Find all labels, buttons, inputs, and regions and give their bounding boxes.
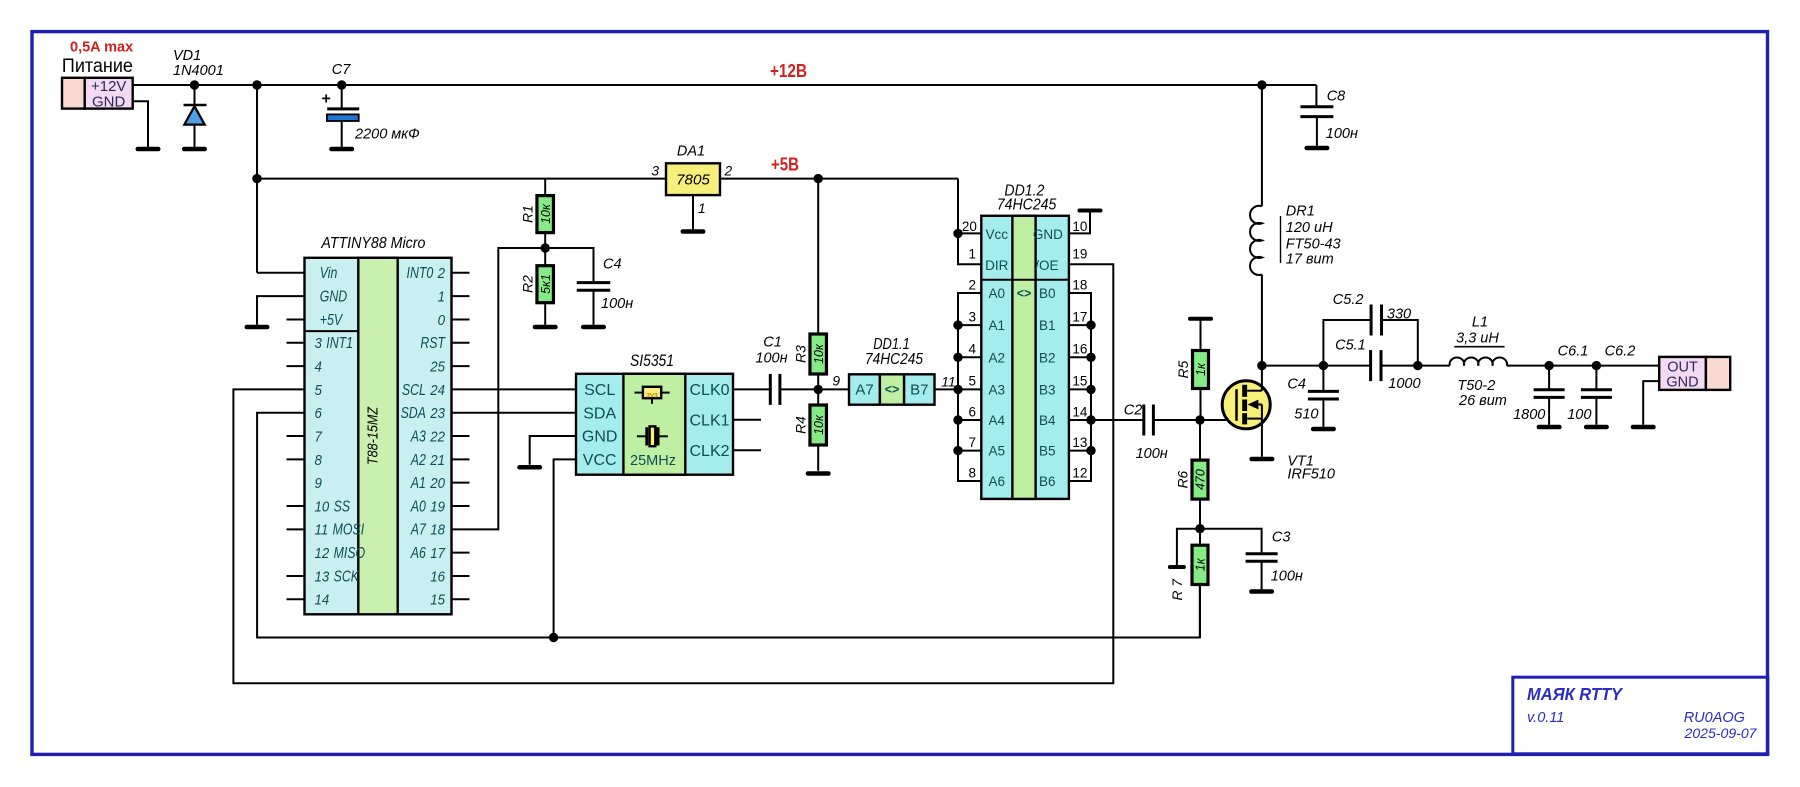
svg-text:2: 2	[968, 277, 976, 292]
svg-text:24: 24	[429, 383, 445, 399]
svg-text:100н: 100н	[1136, 446, 1168, 462]
svg-text:RST: RST	[420, 335, 446, 352]
svg-text:3V3: 3V3	[646, 392, 658, 399]
svg-text:SCK: SCK	[334, 568, 360, 585]
svg-text:13: 13	[315, 569, 330, 585]
svg-text:100н: 100н	[1271, 569, 1303, 585]
svg-text:510: 510	[1294, 407, 1318, 423]
svg-text:B7: B7	[910, 382, 928, 399]
svg-text:Vin: Vin	[320, 265, 338, 282]
svg-text:+5V: +5V	[320, 312, 344, 329]
svg-text:21: 21	[429, 453, 445, 469]
svg-text:INT1: INT1	[326, 335, 353, 352]
svg-text:GND: GND	[1033, 227, 1063, 242]
svg-text:330: 330	[1387, 307, 1411, 323]
svg-text:17 вит: 17 вит	[1286, 252, 1334, 268]
svg-text:C5.2: C5.2	[1333, 292, 1364, 308]
svg-text:МАЯК RTTY: МАЯК RTTY	[1527, 684, 1623, 704]
svg-text:11: 11	[941, 374, 955, 389]
svg-text:18: 18	[430, 523, 445, 539]
svg-text:18: 18	[1072, 277, 1087, 292]
svg-text:+12В: +12В	[770, 61, 807, 81]
svg-text:C1: C1	[763, 335, 782, 351]
svg-text:5: 5	[968, 374, 976, 389]
svg-text:R1: R1	[521, 205, 536, 223]
svg-text:SS: SS	[334, 498, 351, 515]
svg-text:74HC245: 74HC245	[997, 196, 1057, 213]
svg-text:A6: A6	[989, 474, 1006, 489]
svg-text:+5В: +5В	[771, 155, 799, 175]
svg-text:74HC245: 74HC245	[865, 351, 923, 368]
svg-text:CLK2: CLK2	[689, 443, 729, 460]
svg-text:15: 15	[430, 593, 446, 609]
svg-text:26 вит: 26 вит	[1458, 393, 1507, 409]
svg-text:19: 19	[430, 499, 445, 515]
svg-text:GND: GND	[320, 289, 347, 306]
svg-text:A7: A7	[410, 522, 427, 539]
svg-text:1к: 1к	[1193, 557, 1207, 571]
svg-text:10к: 10к	[812, 343, 826, 364]
svg-text:R3: R3	[794, 345, 809, 363]
svg-text:7805: 7805	[676, 172, 710, 189]
svg-text:B4: B4	[1039, 413, 1056, 428]
svg-text:GND: GND	[1666, 375, 1698, 391]
svg-text:10к: 10к	[812, 414, 826, 435]
svg-text:20: 20	[429, 476, 445, 492]
svg-text:23: 23	[429, 406, 445, 422]
svg-text:6: 6	[315, 406, 322, 422]
svg-text:0: 0	[438, 313, 445, 329]
svg-text:10: 10	[315, 499, 330, 515]
svg-text:100н: 100н	[601, 296, 633, 312]
svg-text:25: 25	[429, 359, 446, 375]
svg-text:14: 14	[1072, 404, 1088, 419]
svg-text:2200 мкФ: 2200 мкФ	[354, 127, 420, 143]
svg-text:RU0AOG: RU0AOG	[1684, 710, 1745, 726]
svg-text:11: 11	[315, 523, 329, 539]
svg-text:B5: B5	[1039, 444, 1056, 459]
svg-text:17: 17	[430, 546, 446, 562]
svg-text:R4: R4	[794, 416, 809, 434]
svg-text:16: 16	[430, 569, 445, 585]
svg-text:16: 16	[1072, 342, 1087, 357]
svg-text:+12V: +12V	[91, 78, 126, 95]
svg-text:8: 8	[315, 453, 322, 469]
svg-text:Vcc: Vcc	[986, 227, 1009, 242]
svg-text:OUT: OUT	[1667, 360, 1698, 376]
svg-text:DA1: DA1	[677, 144, 705, 160]
svg-text:B0: B0	[1039, 286, 1056, 301]
svg-text:R2: R2	[521, 275, 536, 293]
svg-text:VCC: VCC	[583, 452, 617, 469]
svg-text:1: 1	[968, 247, 976, 262]
svg-text:SDA: SDA	[583, 405, 616, 422]
svg-text:C8: C8	[1327, 88, 1346, 104]
svg-text:100н: 100н	[755, 351, 787, 367]
svg-text:R 7: R 7	[1170, 578, 1185, 601]
svg-text:2: 2	[724, 164, 733, 179]
svg-text:INT0: INT0	[407, 265, 434, 282]
svg-text:FT50-43: FT50-43	[1286, 237, 1341, 253]
svg-text:6: 6	[968, 404, 976, 419]
svg-text:GND: GND	[92, 94, 126, 111]
svg-text:T88-15MZ: T88-15MZ	[365, 406, 382, 465]
svg-text:IRF510: IRF510	[1287, 467, 1335, 483]
svg-text:<>: <>	[885, 383, 900, 397]
svg-text:470: 470	[1194, 469, 1208, 490]
svg-text:B2: B2	[1039, 350, 1056, 365]
svg-text:0,5A max: 0,5A max	[70, 40, 133, 56]
svg-text:7: 7	[968, 435, 976, 450]
svg-text:A1: A1	[989, 318, 1006, 333]
svg-text:A6: A6	[410, 545, 426, 562]
svg-text:13: 13	[1072, 435, 1087, 450]
svg-text:ATTINY88 Micro: ATTINY88 Micro	[320, 235, 425, 252]
svg-text:A2: A2	[410, 452, 426, 469]
svg-text:C3: C3	[1272, 530, 1291, 546]
svg-text:A0: A0	[989, 286, 1006, 301]
svg-text:A5: A5	[989, 444, 1006, 459]
svg-text:3,3 uH: 3,3 uH	[1456, 331, 1499, 347]
svg-text:5к1: 5к1	[539, 274, 553, 294]
svg-text:CLK1: CLK1	[689, 413, 729, 430]
svg-text:SCL: SCL	[584, 382, 615, 399]
svg-text:R6: R6	[1175, 470, 1190, 488]
svg-text:17: 17	[1072, 309, 1087, 324]
svg-text:VD1: VD1	[173, 48, 201, 64]
svg-text:19: 19	[1072, 247, 1087, 262]
svg-text:1000: 1000	[1388, 376, 1420, 392]
svg-text:100: 100	[1567, 407, 1591, 423]
svg-text:<>: <>	[1017, 287, 1032, 301]
svg-text:DR1: DR1	[1286, 204, 1315, 220]
svg-text:14: 14	[315, 593, 330, 609]
svg-text:A1: A1	[410, 475, 426, 492]
svg-text:1N4001: 1N4001	[173, 63, 224, 79]
svg-text:Питание: Питание	[62, 56, 133, 77]
svg-text:C4: C4	[603, 257, 622, 273]
svg-text:12: 12	[315, 546, 330, 562]
svg-text:A4: A4	[989, 413, 1006, 428]
svg-text:2025-09-07: 2025-09-07	[1683, 725, 1757, 741]
svg-text:B6: B6	[1039, 474, 1056, 489]
svg-text:A3: A3	[410, 428, 426, 445]
svg-text:2: 2	[437, 266, 445, 282]
svg-text:3: 3	[968, 309, 976, 324]
svg-text:C6.2: C6.2	[1605, 344, 1636, 360]
svg-text:3: 3	[315, 336, 322, 352]
svg-text:9: 9	[832, 373, 840, 388]
svg-text:/OE: /OE	[1035, 258, 1058, 273]
svg-text:120 uH: 120 uH	[1286, 220, 1333, 236]
svg-text:C4: C4	[1287, 377, 1306, 393]
svg-text:SI5351: SI5351	[630, 352, 674, 370]
svg-text:MOSI: MOSI	[333, 522, 365, 539]
svg-text:25MHz: 25MHz	[630, 453, 676, 469]
svg-text:12: 12	[1072, 465, 1087, 480]
svg-text:C2: C2	[1124, 403, 1143, 419]
svg-text:R5: R5	[1176, 360, 1191, 378]
svg-text:L1: L1	[1472, 315, 1488, 331]
svg-text:3: 3	[651, 164, 659, 179]
svg-text:10: 10	[1072, 219, 1087, 234]
svg-text:1800: 1800	[1513, 407, 1545, 423]
svg-text:9: 9	[315, 476, 322, 492]
svg-text:DIR: DIR	[985, 258, 1009, 273]
svg-text:5: 5	[315, 383, 323, 399]
svg-text:C7: C7	[332, 62, 351, 78]
svg-text:8: 8	[968, 465, 976, 480]
svg-text:1к: 1к	[1194, 362, 1208, 376]
svg-text:SCL: SCL	[402, 382, 426, 399]
svg-text:22: 22	[429, 429, 445, 445]
svg-text:1: 1	[438, 290, 445, 306]
svg-text:20: 20	[962, 219, 977, 234]
svg-text:1: 1	[698, 201, 706, 216]
svg-text:7: 7	[315, 429, 323, 445]
svg-text:A7: A7	[855, 382, 873, 399]
svg-text:100н: 100н	[1326, 126, 1358, 142]
svg-text:A2: A2	[989, 350, 1006, 365]
svg-text:A0: A0	[410, 498, 426, 515]
svg-text:15: 15	[1072, 374, 1087, 389]
svg-text:10к: 10к	[539, 203, 553, 224]
svg-text:C6.1: C6.1	[1558, 344, 1589, 360]
svg-text:B1: B1	[1039, 318, 1056, 333]
svg-text:SDA: SDA	[401, 405, 426, 422]
svg-text:T50-2: T50-2	[1457, 378, 1495, 394]
svg-text:CLK0: CLK0	[689, 382, 729, 399]
svg-text:4: 4	[968, 342, 976, 357]
svg-text:C5.1: C5.1	[1335, 338, 1366, 354]
svg-text:MISO: MISO	[334, 545, 366, 562]
svg-text:v.0.11: v.0.11	[1527, 710, 1564, 726]
svg-text:+: +	[322, 91, 331, 108]
svg-text:4: 4	[315, 359, 322, 375]
svg-text:A3: A3	[989, 382, 1006, 397]
svg-text:B3: B3	[1039, 382, 1056, 397]
svg-text:GND: GND	[582, 429, 618, 446]
